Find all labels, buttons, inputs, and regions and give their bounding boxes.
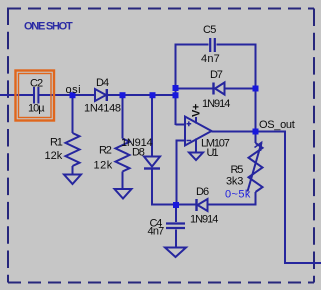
svg-text:R5: R5 — [231, 164, 244, 176]
svg-text:0~5k: 0~5k — [225, 188, 251, 200]
svg-text:D4: D4 — [96, 77, 109, 89]
svg-text:1N914: 1N914 — [190, 213, 218, 225]
svg-text:C2: C2 — [30, 78, 43, 90]
svg-text:1N914: 1N914 — [202, 98, 230, 110]
svg-text:3k3: 3k3 — [226, 175, 243, 187]
svg-text:OS_out: OS_out — [259, 119, 295, 131]
svg-text:10µ: 10µ — [28, 103, 45, 115]
svg-text:12k: 12k — [94, 159, 113, 171]
svg-text:12k: 12k — [45, 150, 63, 162]
svg-text:ONE SHOT: ONE SHOT — [24, 21, 73, 33]
svg-text:V+: V+ — [191, 104, 203, 117]
svg-text:R2: R2 — [99, 145, 112, 157]
svg-text:osi: osi — [66, 84, 82, 96]
svg-text:C5: C5 — [203, 24, 216, 36]
svg-text:1N4148: 1N4148 — [84, 103, 121, 115]
svg-text:R1: R1 — [50, 137, 63, 149]
svg-text:D8: D8 — [132, 146, 145, 158]
svg-text:4n7: 4n7 — [201, 53, 220, 65]
svg-text:4n7: 4n7 — [148, 225, 165, 237]
svg-text:D6: D6 — [196, 186, 209, 198]
svg-text:D7: D7 — [210, 69, 223, 81]
